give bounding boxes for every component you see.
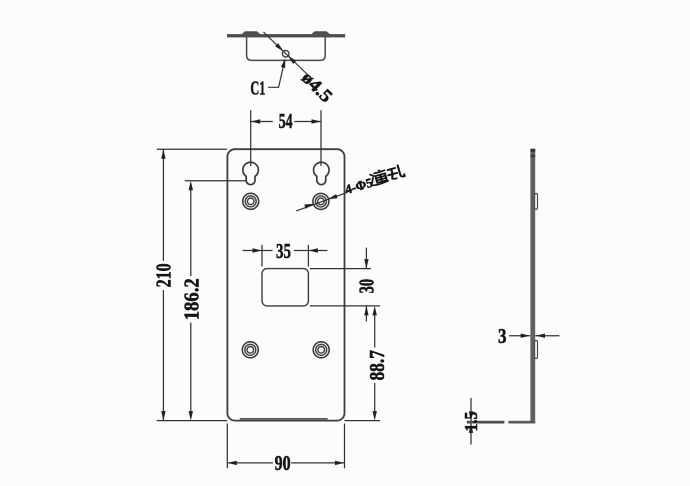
extension line 1.5 dim	[467, 421, 505, 424]
front plate outline	[227, 149, 344, 420]
leader 4-phi5 through holes	[296, 192, 347, 211]
rectangular cutout	[262, 269, 308, 306]
svg-text:210: 210	[152, 263, 176, 287]
side view bottom flange	[508, 421, 535, 424]
bottom bend line	[240, 418, 328, 420]
dimension 1.5	[470, 398, 472, 445]
svg-text:C1: C1	[250, 77, 265, 99]
svg-text:90: 90	[275, 451, 291, 475]
leader C1	[268, 67, 283, 87]
top view plate bar	[227, 34, 345, 37]
svg-text:3: 3	[498, 324, 507, 348]
arrowhead upper-left of C1 hole	[275, 43, 283, 51]
glyph tong (CJK)	[369, 169, 389, 187]
svg-text:54: 54	[279, 109, 293, 133]
arrowhead left of upper-right hole	[304, 204, 314, 209]
dimension 54	[251, 110, 321, 166]
glyph kong (CJK)	[386, 164, 404, 180]
svg-text:88.7: 88.7	[365, 350, 389, 381]
svg-text:30: 30	[354, 279, 378, 294]
svg-text:35: 35	[276, 239, 291, 263]
mounting hole upper-left rings	[243, 193, 259, 209]
dimension 30	[310, 248, 380, 322]
arrowhead right of upper-right hole	[328, 194, 338, 199]
diameter leader line o4.5	[264, 32, 310, 76]
side view upper boss bump	[535, 194, 538, 210]
dimension 186.2	[185, 181, 247, 413]
mounting hole lower-left rings	[242, 342, 258, 358]
svg-text:186.2: 186.2	[179, 278, 203, 320]
side view second dark band	[530, 155, 535, 158]
side view top edge dark band	[530, 149, 535, 152]
dimension 88.7	[345, 313, 381, 421]
hole C1 in top view	[282, 50, 289, 57]
top view body outline	[247, 37, 326, 60]
mounting hole lower-right rings	[313, 342, 329, 358]
dimension 35	[243, 245, 328, 267]
dimension 3	[509, 335, 560, 337]
dimension 90	[227, 424, 344, 469]
keyhole slot right	[314, 162, 330, 184]
label 4-phi5 through-hole	[343, 164, 406, 197]
arrowhead lower-right of C1 hole	[288, 56, 296, 64]
mounting hole upper-right rings	[313, 193, 329, 209]
dimension 210	[157, 149, 228, 420]
top view left boss	[242, 31, 261, 34]
svg-text:1.5: 1.5	[461, 412, 481, 432]
side view lower boss bump	[535, 341, 538, 359]
svg-text:4-Φ5: 4-Φ5	[343, 175, 375, 197]
arrowhead C1 leader	[281, 58, 285, 68]
svg-text:ø4.5: ø4.5	[298, 67, 337, 106]
top view right boss	[311, 31, 330, 34]
side view plate bar	[530, 149, 535, 421]
keyhole slot left	[243, 162, 259, 184]
